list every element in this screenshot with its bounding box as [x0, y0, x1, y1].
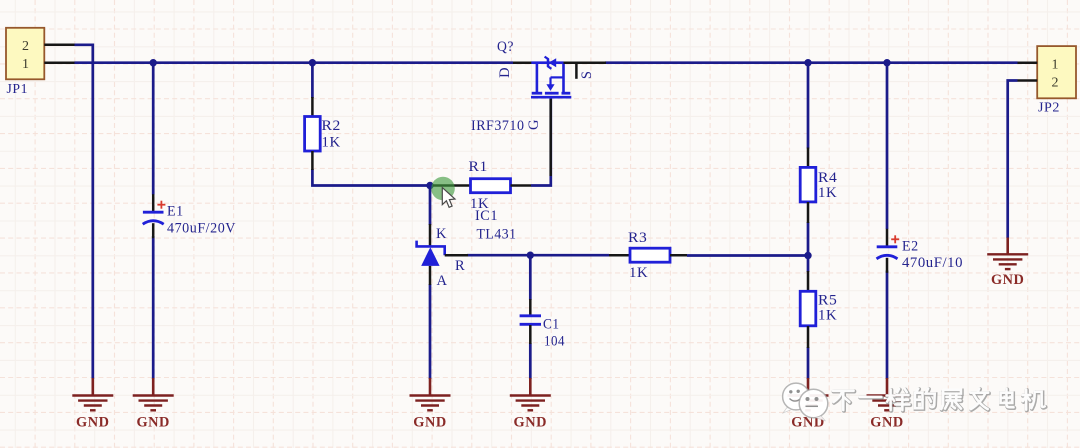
pin label R — [455, 258, 465, 274]
capacitor E2 — [877, 229, 900, 273]
svg-text:2: 2 — [22, 39, 30, 54]
node junction at R2 branch — [309, 59, 316, 66]
svg-text:GND: GND — [76, 415, 110, 431]
svg-text:TL431: TL431 — [477, 227, 517, 243]
label C1 — [543, 317, 560, 333]
svg-text:R2: R2 — [322, 118, 341, 134]
wire: main top rail left (JP1 pin1 to MOSFET D) — [75, 61, 514, 64]
cursor highlight circle — [431, 177, 455, 201]
wire: E1 branch vertical — [152, 63, 155, 379]
transistor Q? IRF3710 power MOSFET — [513, 57, 606, 176]
svg-text:1K: 1K — [818, 185, 837, 201]
node junction at R4/R5 mid — [804, 252, 811, 259]
label E2 — [902, 239, 919, 255]
svg-text:S: S — [579, 70, 595, 79]
ground GND (TL431 A) — [410, 378, 451, 431]
wire: R4 bottom to junction to R5 top — [807, 222, 810, 272]
wire: JP1 pin2 corner to GND rail — [75, 45, 93, 379]
wire: R2 branch vertical from rail — [311, 63, 314, 98]
label TL431 — [477, 227, 517, 243]
wire: REF line from TL431 to R3 — [467, 254, 609, 257]
svg-text:1K: 1K — [322, 135, 341, 151]
svg-text:IC1: IC1 — [475, 208, 498, 224]
wire: C1 branch vertical — [529, 255, 532, 379]
node junction K — [426, 182, 433, 189]
svg-text:G: G — [526, 119, 542, 130]
svg-text:D: D — [497, 67, 513, 78]
wire: E2 branch vertical — [886, 63, 889, 379]
svg-text:1K: 1K — [818, 308, 837, 324]
resistor R1 — [433, 179, 531, 193]
svg-text:470uF/10: 470uF/10 — [902, 255, 963, 271]
pin label K — [436, 226, 447, 242]
svg-text:R: R — [455, 258, 465, 274]
svg-text:470uF/20V: 470uF/20V — [167, 221, 236, 237]
wire: TL431 K vertical — [429, 186, 432, 226]
svg-text:GND: GND — [413, 415, 447, 431]
svg-text:C1: C1 — [543, 317, 560, 333]
resistor R2 — [305, 97, 321, 170]
pin JP2-2 — [1018, 79, 1038, 82]
label R1 — [469, 159, 488, 175]
svg-text:GND: GND — [514, 415, 548, 431]
svg-text:R1: R1 — [469, 159, 488, 175]
ground GND (R5) — [788, 378, 829, 431]
svg-text:E1: E1 — [167, 204, 184, 220]
connector JP2 — [1037, 46, 1076, 98]
wire: R5 bottom to GND — [807, 347, 810, 379]
node junction at E1 branch — [150, 59, 157, 66]
svg-text:JP2: JP2 — [1038, 100, 1060, 115]
pin label A — [437, 273, 448, 289]
resistor R4 — [800, 148, 816, 224]
svg-text:GND: GND — [136, 415, 170, 431]
label JP1 — [7, 81, 29, 96]
label Q? — [497, 39, 514, 55]
ground GND (E1) — [133, 378, 174, 431]
wire: R3 right to R4/R5 junction — [687, 254, 808, 257]
svg-text:R4: R4 — [818, 170, 838, 186]
svg-text:1K: 1K — [629, 265, 648, 281]
svg-text:GND: GND — [870, 415, 904, 431]
svg-text:Q?: Q? — [497, 39, 514, 55]
label R5 — [818, 293, 837, 309]
pin JP1-1 — [44, 61, 74, 64]
label R4 — [818, 170, 838, 186]
pin label D — [497, 67, 513, 78]
svg-text:JP1: JP1 — [7, 81, 29, 96]
label R3 — [628, 230, 647, 246]
label IC1 — [475, 208, 498, 224]
label JP2 — [1038, 100, 1060, 115]
wire: JP2 pin2 elbow down to GND — [1008, 81, 1018, 239]
svg-text:R3: R3 — [628, 230, 647, 246]
wire: R4 branch vertical from rail — [807, 63, 810, 149]
label R1 value 1K — [470, 196, 489, 212]
pin label G — [526, 119, 542, 130]
node junction at R4 branch — [804, 59, 811, 66]
pin label S — [579, 70, 595, 79]
svg-text:E2: E2 — [902, 239, 919, 255]
svg-text:104: 104 — [544, 334, 565, 350]
label R5 value 1K — [818, 308, 837, 324]
resistor R5 — [800, 271, 816, 348]
label R2 — [322, 118, 341, 134]
label E2 value 470uF/10 — [902, 255, 963, 271]
label R2 value 1K — [322, 135, 341, 151]
resistor R3 — [609, 248, 687, 262]
svg-text:GND: GND — [991, 272, 1025, 288]
svg-text:R5: R5 — [818, 293, 837, 309]
watermark text 不一样的展文电机 — [833, 388, 1045, 410]
ground GND (JP2 pin2) — [987, 238, 1028, 289]
wire: R2 bottom to TL431 K junction — [312, 169, 433, 186]
capacitor E1 — [143, 194, 166, 238]
cursor arrow — [442, 188, 455, 208]
pin JP2-1 — [1018, 61, 1038, 64]
ground GND (C1) — [510, 378, 551, 431]
label E1 — [167, 204, 184, 220]
connector JP1 — [6, 28, 44, 80]
label IRF3710 — [471, 118, 525, 134]
svg-text:IRF3710: IRF3710 — [471, 118, 525, 134]
wire: gate elbow from R1 right pin up to MOSFET gate — [531, 98, 551, 186]
ground GND (JP1 pin2) — [72, 378, 113, 431]
svg-text:A: A — [437, 273, 448, 289]
label C1 value 104 — [544, 334, 565, 350]
label R3 value 1K — [629, 265, 648, 281]
svg-text:1: 1 — [1051, 57, 1059, 72]
wire: TL431 A vertical to GND — [429, 284, 432, 379]
svg-text:2: 2 — [1051, 75, 1059, 90]
svg-text:1: 1 — [22, 57, 30, 72]
capacitor C1 — [520, 299, 541, 344]
ground GND (E2) — [867, 378, 908, 431]
label E1 value 470uF/20V — [167, 221, 236, 237]
pin JP1-2 — [44, 44, 74, 47]
node junction at E2 branch — [883, 59, 890, 66]
watermark logo bubbles — [783, 383, 828, 421]
node junction at C1 branch — [527, 252, 534, 259]
wire: main top rail right (MOSFET S to JP2 pin1) — [605, 61, 1018, 64]
label R4 value 1K — [818, 185, 837, 201]
shunt regulator IC1 TL431 — [417, 224, 468, 285]
svg-text:K: K — [436, 226, 447, 242]
